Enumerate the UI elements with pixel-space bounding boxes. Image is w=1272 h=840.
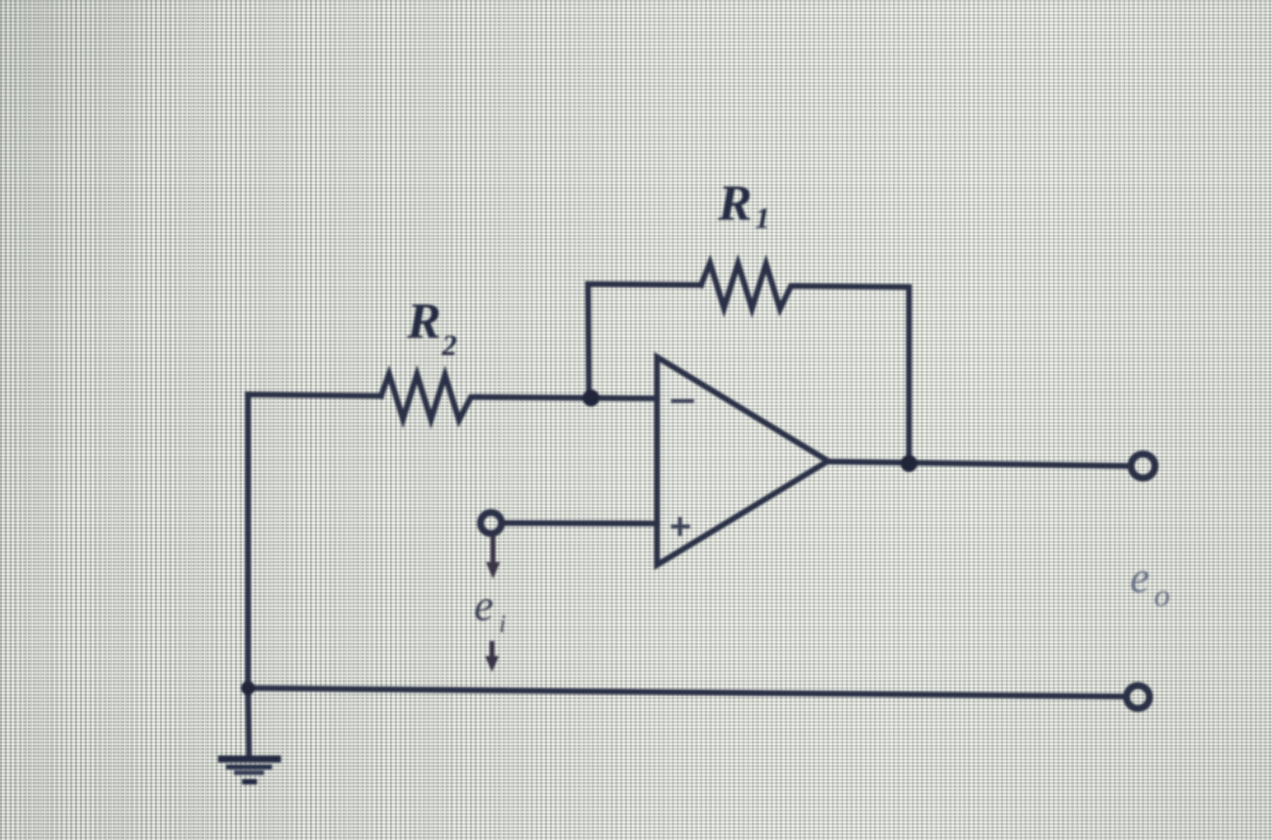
svg-text:R: R xyxy=(717,176,752,232)
svg-text:i: i xyxy=(499,611,506,638)
svg-text:e: e xyxy=(474,581,494,630)
svg-text:1: 1 xyxy=(755,202,770,235)
svg-text:o: o xyxy=(1154,577,1170,613)
svg-text:e: e xyxy=(1130,553,1150,602)
svg-text:R: R xyxy=(406,294,441,350)
svg-text:2: 2 xyxy=(441,329,457,362)
